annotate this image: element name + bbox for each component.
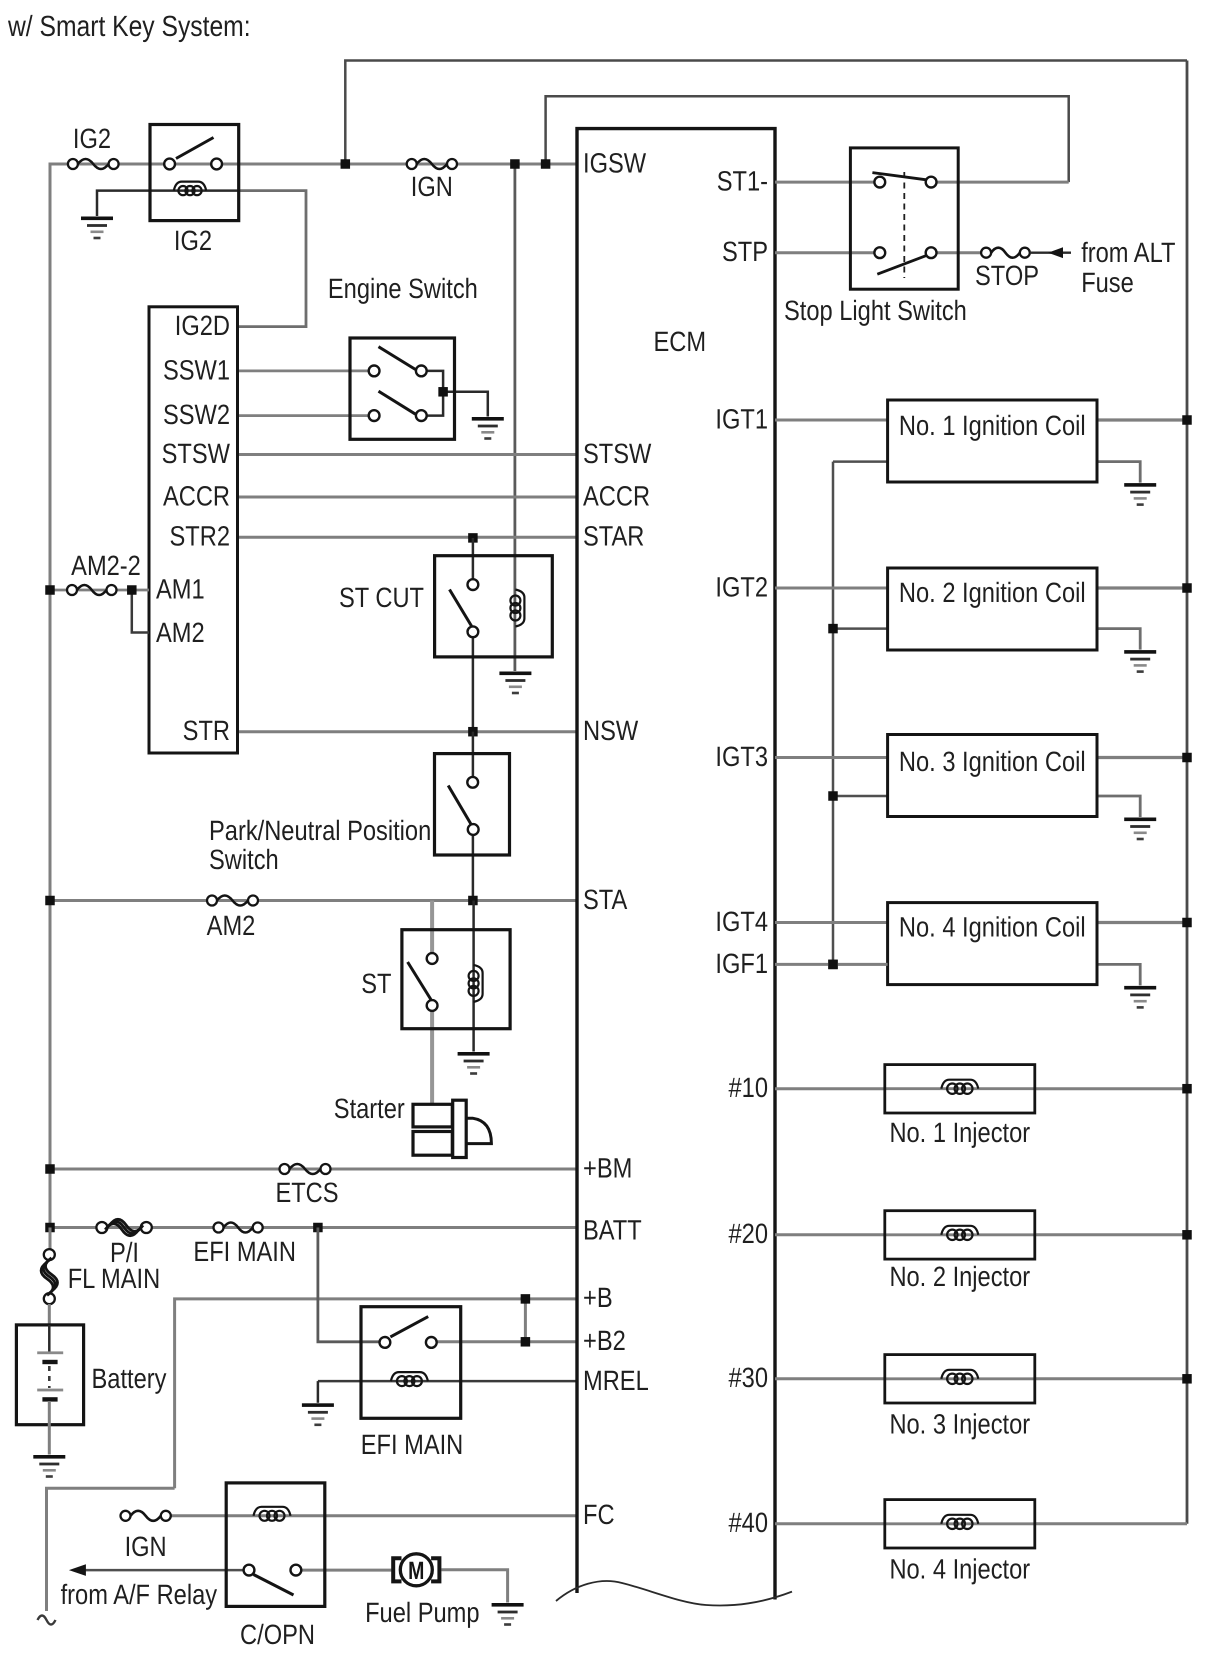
C/OPN relay box (226, 1483, 325, 1607)
wire coil4 right top (1097, 921, 1187, 924)
pin #10 (729, 1072, 768, 1103)
wire left bus vertical (49, 163, 52, 1228)
fuse ETCS (280, 1164, 331, 1174)
fuse EFI MAIN label (193, 1236, 296, 1267)
wire SSW common to ground (427, 371, 488, 417)
junction right bus coil1 (1182, 415, 1192, 425)
starter solenoid bar (453, 1100, 467, 1157)
wire continuation squiggle (38, 1616, 56, 1625)
junction engine switch common (438, 387, 448, 397)
pin STSW (162, 438, 231, 469)
relay IG2 switch contacts (164, 159, 222, 170)
fuse IGN (407, 159, 457, 169)
wire IGT1 row (775, 419, 888, 422)
fuse IGN bottom (121, 1511, 171, 1521)
wire STCUT switch top lead (472, 538, 475, 580)
wire #30 row (775, 1377, 885, 1380)
wire coil2 right top (1097, 586, 1187, 589)
relay IG2 box (150, 125, 239, 221)
battery plate long2 (37, 1389, 63, 1392)
injector 4 box (885, 1500, 1035, 1548)
wire AM2 jog (132, 590, 149, 633)
park neutral label2 (209, 844, 279, 875)
pin #40 (729, 1507, 768, 1538)
junction right bus injector2 (1182, 1230, 1192, 1240)
arrow from AF relay (69, 1564, 86, 1576)
wire EFI coil ground lead (317, 1381, 320, 1403)
svg-text:IGT1: IGT1 (715, 404, 768, 435)
ground ignition coil 4 (1124, 986, 1156, 1009)
svg-text:IGSW: IGSW (583, 148, 647, 179)
pin STSW ecm (583, 438, 652, 469)
svg-text:+B: +B (583, 1282, 613, 1313)
EFI MAIN blade (390, 1317, 428, 1337)
wire coil2 igf lead (833, 627, 888, 630)
pin NSW (583, 715, 639, 746)
stop light bottom blade (877, 255, 926, 274)
svg-text:ACCR: ACCR (163, 481, 230, 512)
wire IGF bus (832, 462, 835, 965)
wire injector3 internal (885, 1377, 1035, 1380)
starter label (334, 1093, 405, 1124)
fuel pump motor circle (400, 1554, 432, 1586)
svg-text:STP: STP (722, 236, 768, 267)
pin AM1 (156, 574, 205, 605)
wire MREL row (318, 1380, 577, 1383)
svg-text:STR2: STR2 (170, 521, 230, 552)
wire STA row (50, 899, 577, 902)
svg-text:Battery: Battery (92, 1363, 167, 1394)
ground IG2 relay coil (81, 217, 113, 240)
ignition coil 2 label (899, 577, 1086, 608)
injector 1 coil (941, 1080, 978, 1094)
ground engine switch (472, 417, 504, 440)
pin STR2 (170, 521, 230, 552)
injector 1 label (889, 1117, 1030, 1148)
wire STCUT switch bottom lead (472, 636, 475, 732)
wire STSW (238, 453, 578, 456)
ignition coil 3 box (888, 735, 1097, 817)
ST CUT label (339, 582, 424, 613)
pin +BM (583, 1153, 632, 1184)
ST label (361, 968, 391, 999)
wire coil2 ground lead (1097, 629, 1140, 650)
svg-text:+BM: +BM (583, 1153, 632, 1184)
wire coil4 igf lead (833, 963, 888, 966)
fuel pump left bracket (393, 1558, 401, 1581)
injector 2 label (889, 1261, 1030, 1292)
fuse IGN label (411, 171, 453, 202)
C/OPN label (240, 1619, 315, 1650)
pin STR (183, 715, 230, 746)
wire STP row (775, 251, 875, 254)
relay IG2 switch blade (176, 138, 214, 159)
ground ignition coil 2 (1124, 650, 1156, 673)
pin STP (722, 236, 768, 267)
wire #10 row (775, 1087, 885, 1090)
ground ignition coil 1 (1124, 483, 1156, 506)
engine switch SSW1 blade (379, 347, 416, 370)
pin FC (583, 1499, 615, 1530)
engine switch SSW2 contacts (369, 410, 427, 421)
ST CUT contacts (468, 579, 479, 637)
svg-text:M: M (408, 1557, 424, 1585)
svg-text:ST: ST (361, 968, 391, 999)
EFI MAIN relay label (361, 1429, 464, 1460)
junction BATT-EFI relay (313, 1223, 323, 1233)
injector 3 box (885, 1355, 1035, 1403)
injector 3 label (889, 1409, 1030, 1440)
ground ST CUT coil (499, 672, 531, 695)
fuel pump right bracket (431, 1558, 439, 1581)
svg-text:STR: STR (183, 715, 230, 746)
stop light dashed link (903, 172, 905, 278)
svg-text:IGF1: IGF1 (715, 948, 768, 979)
junction +B2 (521, 1337, 531, 1347)
svg-text:from A/F Relay: from A/F Relay (61, 1579, 217, 1610)
svg-text:IG2: IG2 (73, 123, 111, 154)
ST blade (408, 962, 431, 1000)
svg-text:w/ Smart Key System:: w/ Smart Key System: (7, 11, 250, 43)
junction STA-ST coil (468, 896, 478, 906)
svg-text:IG2: IG2 (174, 225, 212, 256)
wire STR-NSW (238, 730, 578, 733)
svg-text:STAR: STAR (583, 521, 644, 552)
svg-text:NSW: NSW (583, 715, 639, 746)
svg-text:ST CUT: ST CUT (339, 582, 424, 613)
C/OPN coil (254, 1507, 291, 1521)
wire BATT to EFI relay contact (318, 1228, 380, 1342)
wire ST1- row (775, 181, 875, 184)
svg-text:Switch: Switch (209, 844, 279, 875)
svg-text:IGT4: IGT4 (715, 906, 768, 937)
injector 4 coil (941, 1515, 978, 1529)
engine switch box (350, 338, 455, 439)
wire FL MAIN top (49, 1228, 52, 1251)
junction IGF1 (828, 960, 838, 970)
pin IG2D (175, 310, 230, 341)
fuse IGN bottom label (125, 1531, 167, 1562)
svg-text:No. 4 Ignition Coil: No. 4 Ignition Coil (899, 912, 1086, 943)
wire IG2D loop (238, 191, 307, 327)
wire second loop (546, 96, 1069, 182)
pin IGT2 (715, 572, 768, 603)
fuse AM2-2 label (71, 550, 141, 581)
junction +B (521, 1294, 531, 1304)
pin BATT (583, 1215, 642, 1246)
svg-text:AM2-2: AM2-2 (71, 550, 141, 581)
junction AM2-2 right (127, 585, 137, 595)
battery bottom lead (48, 1401, 51, 1455)
fuse STOP (981, 248, 1030, 258)
stop light switch label (784, 295, 967, 326)
wire FC row (171, 1514, 577, 1517)
svg-text:+B2: +B2 (583, 1325, 626, 1356)
svg-text:STOP: STOP (975, 260, 1039, 291)
EFI MAIN coil (391, 1372, 428, 1386)
junction right bus coil3 (1182, 753, 1192, 763)
fusible link FL MAIN label (68, 1263, 160, 1294)
battery dashed link (48, 1366, 51, 1388)
svg-text:FL MAIN: FL MAIN (68, 1263, 160, 1294)
engine switch SSW1 contacts (369, 366, 427, 377)
fuel pump label (365, 1597, 479, 1628)
junction right bus injector1 (1182, 1084, 1192, 1094)
svg-text:IGT3: IGT3 (715, 741, 768, 772)
battery plate short1 (42, 1360, 57, 1364)
wire +B branch (524, 1299, 527, 1342)
wire ST1- right (936, 181, 1068, 184)
wire coil3 igf lead (833, 795, 888, 798)
svg-text:MREL: MREL (583, 1365, 649, 1396)
junction IGSW-second loop (541, 159, 551, 169)
ECM label (654, 326, 707, 357)
junction IGF coil3 (828, 791, 838, 801)
svg-text:AM2: AM2 (156, 617, 205, 648)
park neutral blade (448, 786, 471, 826)
ECM box (577, 129, 775, 1600)
wire STOP stub (1030, 252, 1071, 254)
wire #20 row (775, 1233, 885, 1236)
wire ST switch bottom lead (430, 1011, 434, 1104)
junction STAR-STCUT (468, 533, 478, 543)
ground ignition coil 3 (1124, 818, 1156, 841)
wire top loop (345, 61, 1187, 165)
svg-text:No. 1 Ignition Coil: No. 1 Ignition Coil (899, 410, 1086, 441)
wire bottom left route (47, 1488, 175, 1611)
relay IG2 label (174, 225, 212, 256)
wire right bus vertical (1186, 61, 1189, 1524)
wire PN top lead (472, 732, 475, 778)
wire battery top lead (48, 1304, 51, 1326)
wire IGT3 row (775, 756, 888, 759)
wire ACCR (238, 496, 578, 499)
svg-text:AM1: AM1 (156, 574, 205, 605)
wire BATT row (50, 1226, 577, 1229)
stop light top blade (872, 173, 926, 180)
junction +BM left (45, 1164, 55, 1174)
pin IGT1 (715, 404, 768, 435)
starter rect2 (413, 1132, 452, 1156)
arrow from ALT fuse (1048, 247, 1063, 258)
svg-text:STSW: STSW (583, 438, 652, 469)
svg-text:BATT: BATT (583, 1215, 642, 1246)
pin IGF1 (715, 948, 768, 979)
pin SSW2 (163, 399, 230, 430)
svg-text:IGN: IGN (125, 1531, 167, 1562)
from ALT label2 (1081, 267, 1134, 298)
wire fuel pump to ground (441, 1570, 507, 1603)
wire coil1 ground lead (1097, 462, 1140, 483)
wire STP right (936, 251, 981, 254)
svg-text:EFI MAIN: EFI MAIN (193, 1236, 296, 1267)
wire SSW2 (238, 414, 371, 417)
engine switch SSW2 blade (379, 391, 416, 414)
pin STAR (583, 521, 644, 552)
battery label (92, 1363, 167, 1394)
wire AM1 row (50, 589, 149, 592)
ST CUT box (435, 556, 553, 657)
park neutral box (435, 754, 510, 855)
wire ST coil lead (472, 901, 475, 1052)
stop light switch box (850, 148, 958, 289)
battery plate short2 (42, 1397, 57, 1401)
wire PN bottom lead (472, 834, 475, 901)
svg-text:IGT2: IGT2 (715, 572, 768, 603)
pin IGT3 (715, 741, 768, 772)
injector 3 coil (941, 1370, 978, 1384)
svg-text:FC: FC (583, 1499, 615, 1530)
svg-text:No. 2 Injector: No. 2 Injector (889, 1261, 1030, 1292)
wire IGT2 row (775, 587, 888, 590)
ignition coil 1 label (899, 410, 1086, 441)
pin MREL (583, 1365, 649, 1396)
fuel pump motor M (408, 1557, 424, 1585)
pin #30 (729, 1362, 768, 1393)
ST relay box (402, 930, 510, 1029)
from AF relay label (61, 1579, 217, 1610)
fuse AM2 label (207, 910, 256, 941)
C/OPN blade (254, 1575, 294, 1596)
svg-text:SSW1: SSW1 (163, 355, 230, 386)
junction IGF coil2 (828, 624, 838, 634)
svg-text:STA: STA (583, 884, 628, 915)
junction BATT left (45, 1223, 55, 1233)
svg-text:#10: #10 (729, 1072, 768, 1103)
ground battery (33, 1455, 65, 1478)
starter pinion hook (466, 1118, 491, 1143)
svg-text:Starter: Starter (334, 1093, 405, 1124)
engine switch label (328, 273, 478, 304)
svg-text:AM2: AM2 (207, 910, 256, 941)
wire vertical to ST CUT coil (514, 164, 517, 671)
title text (7, 11, 250, 43)
wire IGF1 row (775, 963, 888, 966)
svg-text:No. 1 Injector: No. 1 Injector (889, 1117, 1030, 1148)
svg-text:#30: #30 (729, 1362, 768, 1393)
svg-text:SSW2: SSW2 (163, 399, 230, 430)
EFI MAIN contacts (380, 1337, 437, 1348)
junction right bus injector3 (1182, 1374, 1192, 1384)
wire coil1 right top (1097, 418, 1187, 421)
pin #20 (729, 1218, 768, 1249)
wire injector2 right (1035, 1233, 1187, 1236)
wire from AF relay (85, 1569, 244, 1572)
park neutral contacts (467, 777, 478, 835)
pin STA (583, 884, 628, 915)
wire coil3 right top (1097, 756, 1187, 759)
pin +B2 (583, 1325, 626, 1356)
ignition coil 4 label (899, 912, 1086, 943)
injector 1 box (885, 1065, 1035, 1113)
fuse AM2 (207, 896, 258, 906)
svg-text:C/OPN: C/OPN (240, 1619, 315, 1650)
wire SSW1 (238, 369, 371, 372)
svg-text:No. 3 Injector: No. 3 Injector (889, 1409, 1030, 1440)
junction AM2-2 left (45, 585, 55, 595)
pin ACCR (163, 481, 230, 512)
park neutral label1 (209, 815, 431, 846)
injector 4 label (889, 1554, 1030, 1585)
wire IGSW row (50, 163, 577, 166)
fuse STOP label (975, 260, 1039, 291)
svg-text:No. 3 Ignition Coil: No. 3 Ignition Coil (899, 746, 1086, 777)
svg-text:ETCS: ETCS (275, 1177, 338, 1208)
wire coil1 igf lead (833, 460, 888, 463)
wire injector1 right (1035, 1087, 1187, 1090)
ST contacts (427, 953, 438, 1011)
wire coil4 ground lead (1097, 964, 1140, 985)
pin ST1- (717, 166, 768, 197)
battery plate long1 (37, 1351, 63, 1354)
junction NSW (468, 727, 478, 737)
svg-text:Engine Switch: Engine Switch (328, 273, 478, 304)
wire +B2 row (437, 1340, 577, 1343)
injector 2 coil (941, 1226, 978, 1240)
relay IG2 coil (174, 182, 206, 196)
wire STR2-STAR (238, 536, 578, 539)
svg-text:ECM: ECM (654, 326, 707, 357)
wire +B row (175, 1299, 577, 1488)
fuse EFI MAIN (214, 1223, 263, 1233)
junction STA left (45, 896, 55, 906)
pin IGSW (583, 148, 647, 179)
svg-text:Park/Neutral Position: Park/Neutral Position (209, 815, 431, 846)
svg-text:Fuel Pump: Fuel Pump (365, 1597, 479, 1628)
wire injector2 internal (885, 1233, 1035, 1236)
ground ST coil (458, 1052, 490, 1075)
wire injector1 internal (885, 1087, 1035, 1090)
wire COPN to fuel pump (301, 1569, 391, 1572)
battery internal top lead (48, 1325, 51, 1353)
fuse IG2 (68, 159, 119, 169)
svg-text:No. 4 Injector: No. 4 Injector (889, 1554, 1030, 1585)
ST CUT blade (450, 590, 472, 627)
pin SSW1 (163, 355, 230, 386)
starter rect1 (413, 1104, 452, 1127)
wire #40 row (775, 1522, 885, 1525)
fuse ETCS label (275, 1177, 338, 1208)
svg-text:No. 2 Ignition Coil: No. 2 Ignition Coil (899, 577, 1086, 608)
junction IGF coil4 (828, 960, 838, 970)
svg-text:#20: #20 (729, 1218, 768, 1249)
ECM bottom break wave (556, 1581, 792, 1605)
ignition coil 1 box (888, 400, 1097, 482)
junction IGSW-top loop (341, 159, 351, 169)
pin ACCR ecm (583, 481, 650, 512)
wire +BM row (50, 1168, 577, 1171)
fusible link P/I (96, 1219, 151, 1235)
wire IGT4 row (775, 921, 888, 924)
svg-text:Stop Light Switch: Stop Light Switch (784, 295, 967, 326)
ST CUT coil (510, 590, 524, 627)
wire ST switch top lead (430, 901, 434, 957)
wire injector4 internal (885, 1522, 1035, 1525)
fuse IG2 label (73, 123, 111, 154)
ignition coil 2 box (888, 568, 1097, 650)
junction IGSW-STCUT (510, 159, 520, 169)
smart key ECU box (149, 307, 238, 753)
battery box (16, 1325, 83, 1425)
svg-text:EFI MAIN: EFI MAIN (361, 1429, 464, 1460)
svg-text:STSW: STSW (162, 438, 231, 469)
wire coil3 ground lead (1097, 796, 1140, 817)
svg-text:from ALT: from ALT (1081, 237, 1175, 268)
svg-text:#40: #40 (729, 1507, 768, 1538)
svg-text:IG2D: IG2D (175, 310, 230, 341)
ground EFI MAIN coil (302, 1403, 334, 1426)
wire injector4 right (1035, 1522, 1187, 1525)
